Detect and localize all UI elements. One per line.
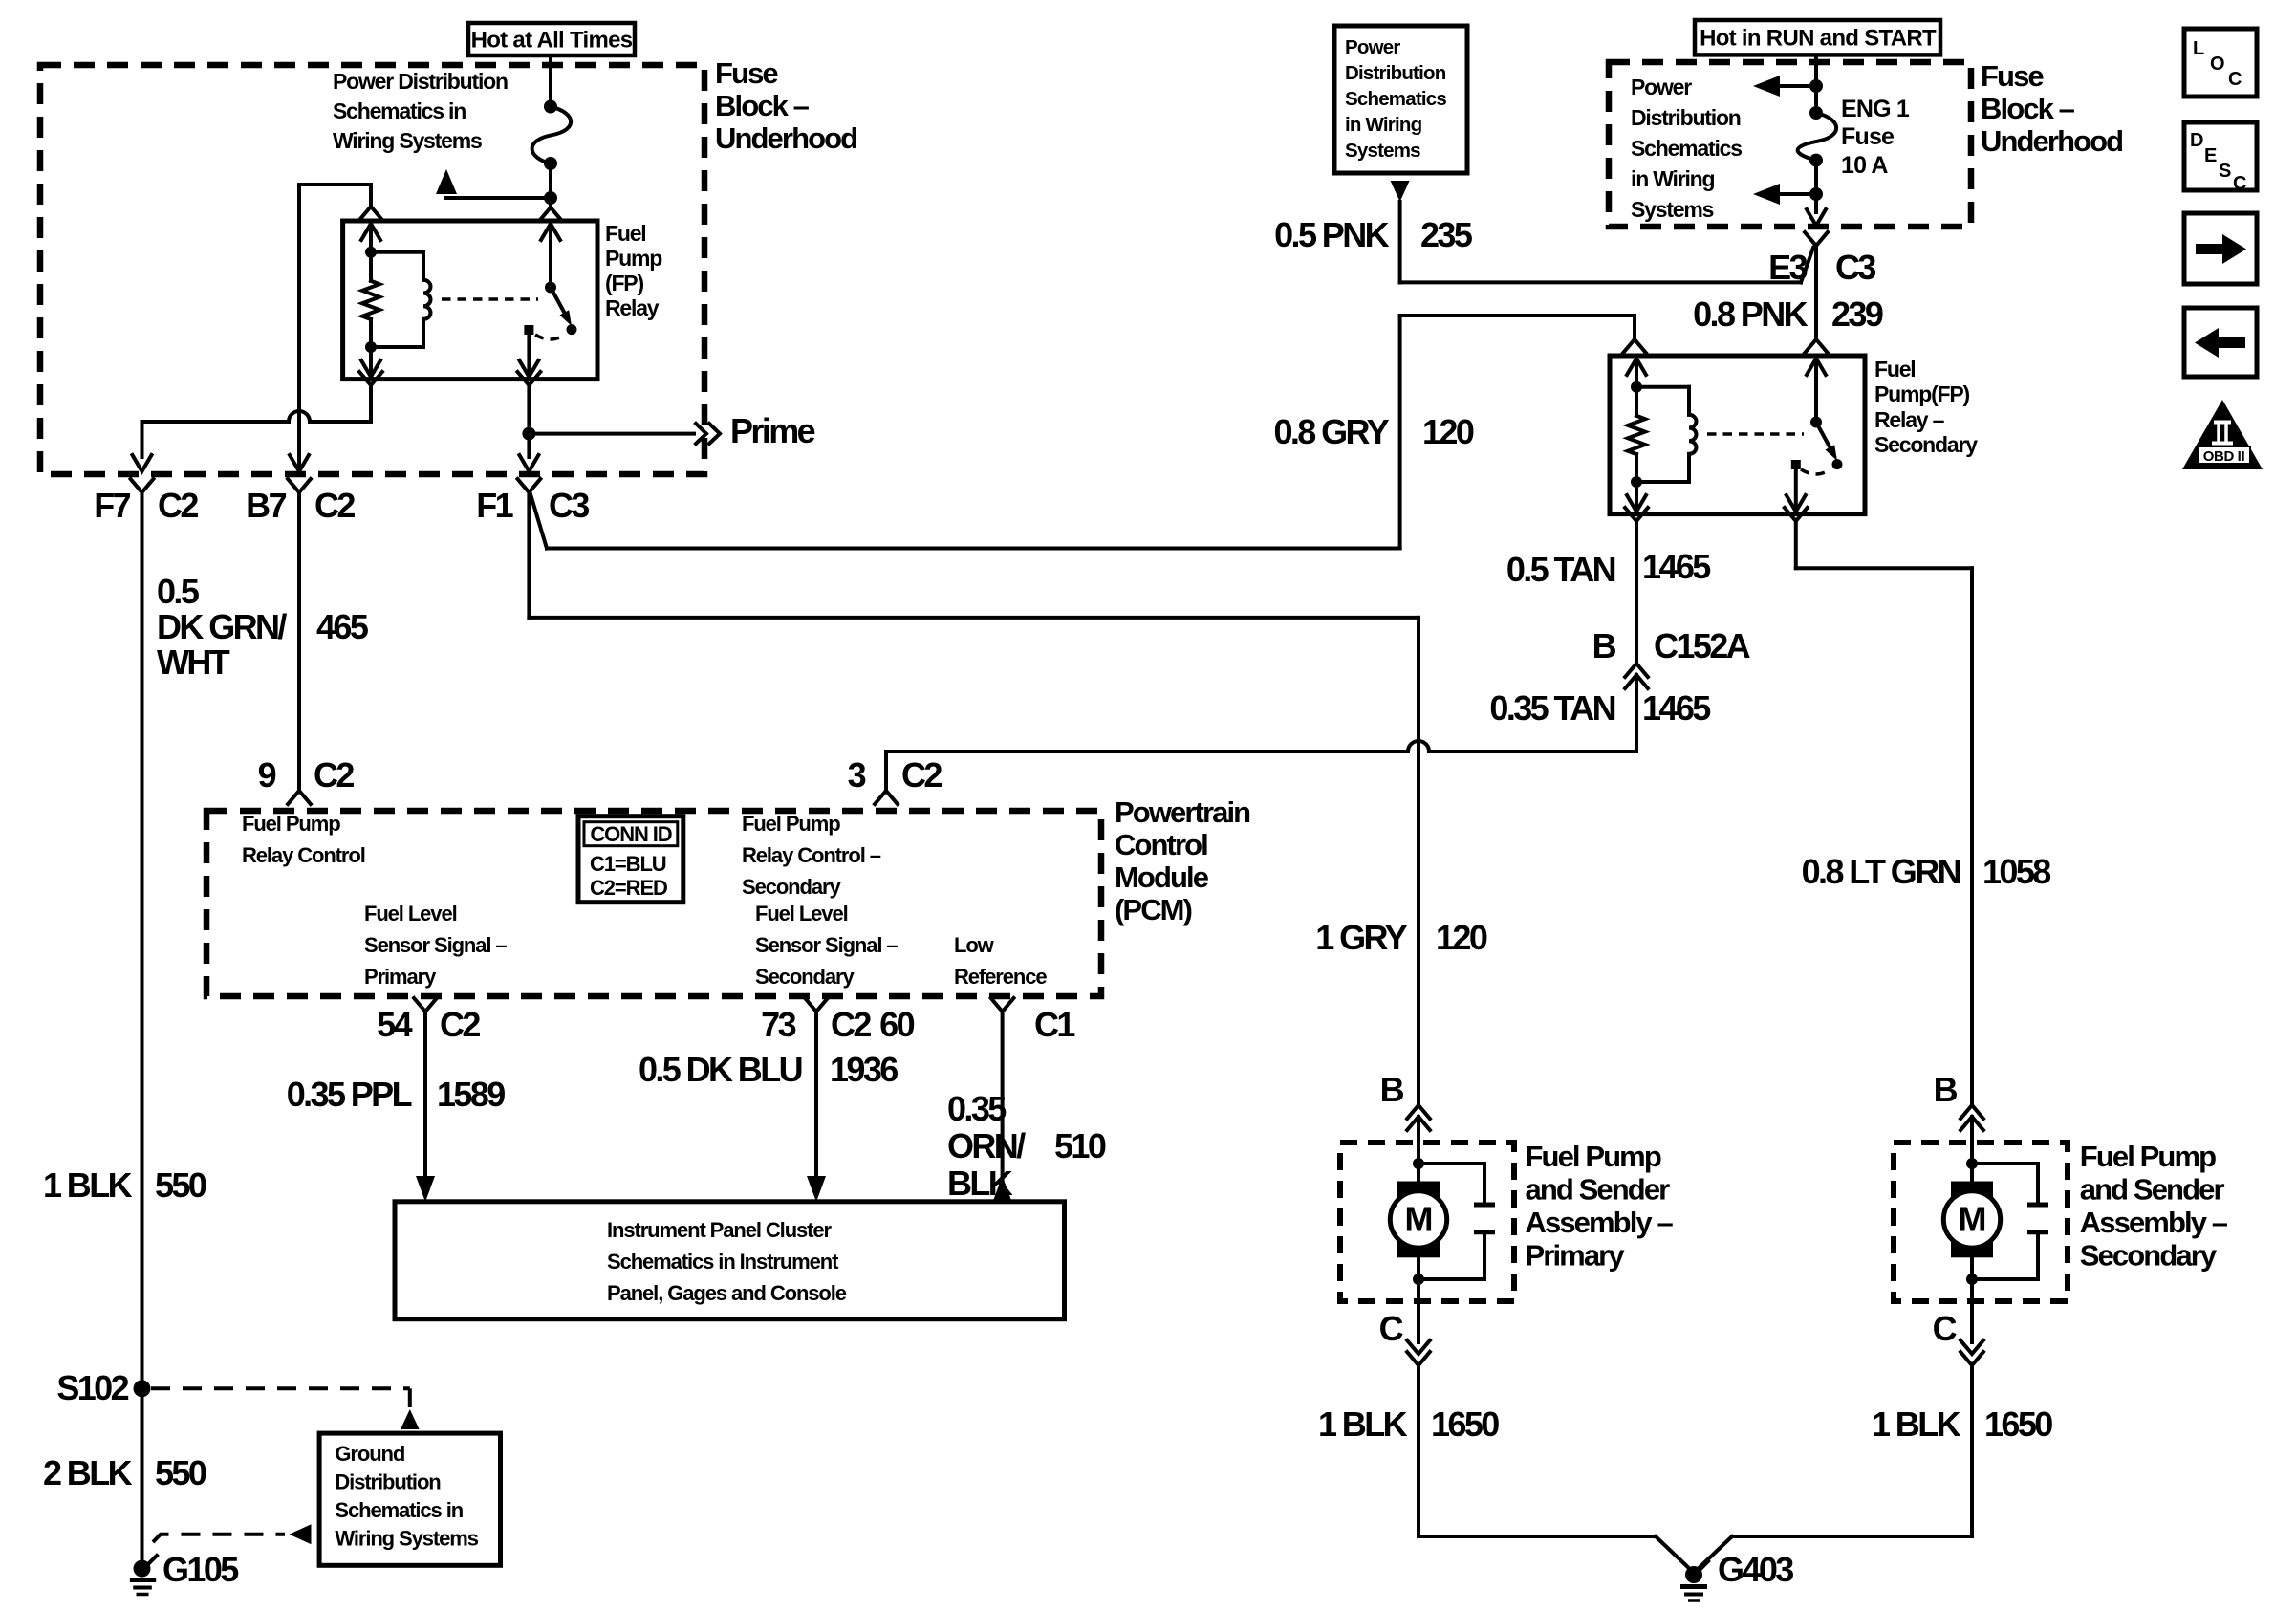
wire 0.5 PNK (1398, 202, 1402, 282)
connector F1/C3 (518, 479, 541, 492)
connector chevron at relay sec pin (coil) (1623, 339, 1646, 353)
fuse block underhood (right) dashed box (1609, 62, 1971, 227)
svg-text:M: M (1405, 1200, 1433, 1239)
svg-text:235: 235 (1420, 215, 1473, 254)
svg-text:WHT: WHT (157, 642, 230, 682)
svg-text:Low: Low (954, 933, 995, 957)
fuel pump secondary dashed box (1894, 1143, 2068, 1301)
wire: Hot at All Times feed (549, 55, 552, 107)
junction (1413, 1158, 1424, 1169)
open arrow at F.B. edge (F1) (519, 455, 538, 471)
svg-text:E: E (2204, 145, 2217, 166)
svg-text:1 BLK: 1 BLK (1872, 1404, 1961, 1444)
svg-text:in Wiring: in Wiring (1345, 114, 1422, 136)
icon: DESC box (2184, 122, 2257, 190)
wire F7 to S102/G105 (141, 492, 144, 1569)
CONN ID legend box (578, 816, 683, 903)
svg-text:Relay Control: Relay Control (242, 843, 365, 867)
wire out of pump primary (1417, 1257, 1420, 1342)
connector PCM pin 60 (991, 998, 1014, 1012)
relay coil+ pin arrow (up) (369, 225, 373, 252)
junction (1631, 381, 1642, 393)
svg-text:ORN/: ORN/ (947, 1126, 1026, 1165)
junction (1809, 79, 1823, 93)
junction (prime branch) (522, 427, 535, 441)
open arrow at F.B. edge (F7) (133, 455, 152, 471)
svg-text:Assembly –: Assembly – (1526, 1206, 1674, 1239)
relay sec common contact (1791, 460, 1801, 469)
wire 1 GRY down to pump (hop at TAN) (529, 616, 1419, 620)
svg-text:550: 550 (155, 1453, 206, 1492)
relay switch input pin arrow (up) (549, 226, 552, 288)
connector C152A (double chevron) (1625, 664, 1648, 677)
arrow to power dist text (lower) (1780, 192, 1816, 196)
svg-text:B: B (1934, 1070, 1958, 1109)
svg-text:1650: 1650 (1984, 1404, 2052, 1444)
svg-text:Assembly –: Assembly – (2080, 1206, 2228, 1239)
ground distribution reference box (319, 1433, 500, 1565)
svg-text:0.5 PNK: 0.5 PNK (1274, 215, 1389, 254)
svg-text:Pump(FP): Pump(FP) (1874, 381, 1970, 406)
svg-text:1 BLK: 1 BLK (43, 1165, 133, 1205)
svg-text:Fuel Pump: Fuel Pump (2080, 1140, 2216, 1173)
svg-text:Fuel Level: Fuel Level (364, 902, 457, 925)
junction (1413, 1274, 1424, 1285)
splice S102 (134, 1380, 151, 1397)
wire 0.8 PNK down to relay (1814, 246, 1818, 339)
svg-text:C3: C3 (1835, 248, 1875, 287)
connector E3/C3 (1805, 232, 1828, 246)
svg-text:C: C (1379, 1309, 1404, 1348)
svg-text:Fuse: Fuse (715, 56, 778, 90)
svg-text:Reference: Reference (954, 965, 1047, 989)
svg-text:C152A: C152A (1654, 626, 1751, 665)
svg-text:and Sender: and Sender (2080, 1173, 2225, 1207)
relay sec switch input pin arrow (up) (1814, 360, 1818, 423)
wire E3 diagonal (1801, 248, 1813, 282)
junction (1966, 1274, 1978, 1285)
wire 0.8 LT GRN jog (1796, 566, 1972, 570)
relay actuation dashed link (442, 297, 538, 301)
connector B (primary, double chevron) (1407, 1105, 1430, 1119)
svg-text:Schematics in Instrument: Schematics in Instrument (607, 1250, 839, 1274)
wire to Prime (529, 432, 694, 436)
dashed reference wire to ground dist box (153, 1535, 285, 1542)
svg-text:C2: C2 (901, 755, 942, 795)
svg-text:73: 73 (761, 1005, 795, 1044)
wire (1814, 161, 1818, 212)
svg-text:1 BLK: 1 BLK (1318, 1404, 1408, 1444)
svg-text:(FP): (FP) (605, 271, 643, 295)
svg-text:0.35 TAN: 0.35 TAN (1489, 688, 1614, 728)
relay sec coil (inductor) (1636, 385, 1689, 389)
svg-text:Relay Control –: Relay Control – (742, 843, 881, 867)
svg-text:Distribution: Distribution (1631, 105, 1741, 130)
svg-text:Fuel: Fuel (605, 221, 645, 246)
solid arrow below power dist box (1391, 181, 1410, 202)
svg-text:Fuel: Fuel (1874, 357, 1915, 381)
svg-text:G105: G105 (162, 1550, 239, 1589)
svg-text:C3: C3 (549, 486, 589, 525)
relay contact dashed arc (535, 335, 565, 339)
svg-text:Fuse: Fuse (1981, 59, 2044, 93)
fuse F (left, symbol) (532, 107, 572, 164)
svg-text:Pump: Pump (605, 246, 662, 271)
svg-text:F1: F1 (476, 486, 513, 525)
svg-text:C: C (1933, 1309, 1958, 1348)
svg-text:C2: C2 (314, 486, 355, 525)
svg-text:ENG 1: ENG 1 (1841, 96, 1910, 122)
svg-text:0.8 PNK: 0.8 PNK (1693, 294, 1808, 334)
wire 0.35 TAN (1635, 675, 1638, 751)
connector chevron below relay sec coil- (1625, 508, 1648, 521)
connector C (secondary, double chevron) (1960, 1340, 1983, 1354)
wire B7 vertical (297, 185, 301, 457)
junction (544, 100, 557, 114)
svg-text:Secondary: Secondary (755, 965, 855, 989)
svg-text:Powertrain: Powertrain (1115, 795, 1250, 829)
svg-text:Schematics in: Schematics in (333, 98, 466, 123)
ground G105 (134, 1560, 151, 1578)
svg-text:1650: 1650 (1431, 1404, 1499, 1444)
svg-text:C2: C2 (314, 755, 354, 795)
connector B7/C2 (288, 479, 311, 492)
junction (544, 157, 557, 170)
svg-text:C: C (2233, 173, 2246, 194)
svg-text:(PCM): (PCM) (1115, 893, 1192, 926)
relay switch pivot (545, 282, 556, 294)
relay sec actuation dashed link (1707, 432, 1804, 436)
connector chevron at relay pin 86 (359, 207, 382, 220)
solid arrow out of cluster (60) (993, 1176, 1012, 1202)
junction (365, 341, 377, 353)
connector C (primary, double chevron) (1407, 1340, 1430, 1354)
solid arrow to Power Distribution text (436, 169, 457, 194)
instrument panel cluster box (395, 1202, 1065, 1319)
icon: LOC box (2184, 29, 2257, 97)
relay common pin arrow (down) (527, 335, 531, 375)
svg-text:Distribution: Distribution (1345, 62, 1446, 84)
wire out of pump secondary (1970, 1257, 1974, 1342)
motor M (primary) (1397, 1182, 1440, 1258)
svg-text:Instrument Panel Cluster: Instrument Panel Cluster (607, 1218, 833, 1242)
svg-text:2 BLK: 2 BLK (43, 1453, 133, 1492)
svg-text:Schematics in: Schematics in (335, 1498, 463, 1522)
svg-text:1936: 1936 (830, 1050, 898, 1089)
svg-text:465: 465 (316, 607, 369, 646)
svg-text:239: 239 (1831, 294, 1883, 334)
svg-text:M: M (1959, 1200, 1986, 1239)
wire (549, 163, 552, 198)
svg-text:Relay: Relay (605, 295, 660, 320)
arrow to power dist text (upper) (1780, 84, 1816, 88)
resistor (relay secondary internal) (1635, 387, 1638, 416)
svg-text:Relay –: Relay – (1874, 407, 1945, 432)
wire into pump secondary (1970, 1117, 1974, 1182)
svg-text:0.8 LT GRN: 0.8 LT GRN (1802, 852, 1960, 891)
double chevron arrow (Prime) (696, 424, 706, 444)
svg-text:OBD II: OBD II (2203, 448, 2245, 465)
svg-text:1465: 1465 (1642, 547, 1711, 586)
svg-text:Hot in RUN and START: Hot in RUN and START (1700, 26, 1937, 52)
svg-text:Fuse: Fuse (1841, 123, 1895, 150)
solid arrow to Ground Distribution box (401, 1409, 420, 1429)
svg-text:1 GRY: 1 GRY (1315, 918, 1407, 957)
icon: OBD II triangle (2182, 400, 2263, 469)
svg-text:Fuel Pump: Fuel Pump (742, 812, 840, 836)
motor M (secondary) (1951, 1182, 1993, 1258)
connector PCM pin 54 (414, 998, 437, 1012)
relay sec switch pivot (1810, 417, 1822, 428)
powertrain control module dashed box (206, 811, 1101, 996)
connector chevron at relay sec pin (sw) (1805, 339, 1828, 353)
svg-text:Distribution: Distribution (335, 1470, 441, 1494)
relay sec switch blade tip (1832, 459, 1843, 469)
svg-text:CONN ID: CONN ID (590, 822, 671, 846)
label box: Hot in RUN and START (1695, 20, 1940, 54)
relay switch blade (551, 288, 564, 314)
resistor (relay primary internal) (369, 252, 373, 281)
relay switch blade tip (567, 324, 577, 335)
svg-text:550: 550 (155, 1165, 206, 1205)
connector F7/C2 (131, 479, 154, 492)
svg-text:and Sender: and Sender (1526, 1173, 1671, 1207)
svg-text:120: 120 (1422, 412, 1474, 451)
svg-text:Schematics: Schematics (1631, 136, 1742, 161)
svg-text:0.5 DK BLU: 0.5 DK BLU (639, 1050, 802, 1089)
connector chevron below relay pin 87 (518, 372, 541, 385)
connector chevron below relay pin 85 (359, 372, 382, 385)
svg-text:Schematics: Schematics (1345, 88, 1446, 110)
wire into pump primary (1417, 1117, 1420, 1182)
fuel pump primary dashed box (1340, 1143, 1514, 1301)
svg-text:in Wiring: in Wiring (1631, 166, 1715, 191)
svg-text:Fuel Pump: Fuel Pump (1526, 1140, 1661, 1173)
svg-text:Module: Module (1115, 860, 1209, 894)
connector chevron below relay sec common (1785, 508, 1808, 521)
wire F1/C3 diagonal (527, 492, 531, 618)
fuse block underhood (left) dashed box (40, 65, 704, 474)
svg-text:Block –: Block – (715, 89, 810, 122)
junction (1966, 1158, 1978, 1169)
svg-text:S102: S102 (56, 1368, 128, 1407)
relay sec switch blade (1816, 423, 1830, 448)
wire to G403 (primary) (1417, 1365, 1420, 1536)
connector chevron PCM pin 3 (875, 791, 898, 804)
junction (365, 247, 377, 258)
svg-text:0.35: 0.35 (947, 1089, 1007, 1128)
svg-text:Underhood: Underhood (715, 121, 856, 155)
wire F1 down (527, 434, 531, 457)
svg-text:9: 9 (258, 755, 276, 795)
wire: coil- to F7 (with hop over B7) (142, 411, 372, 422)
svg-text:Control: Control (1115, 828, 1207, 861)
svg-text:10 A: 10 A (1841, 152, 1888, 179)
junction (1809, 187, 1823, 201)
icon: right arrow box (2184, 213, 2257, 284)
wire B7 to PCM pin 9 (297, 492, 301, 791)
wire to power distribution arrow (446, 196, 551, 200)
svg-text:Wiring Systems: Wiring Systems (335, 1527, 478, 1551)
svg-text:C1=BLU: C1=BLU (590, 852, 666, 876)
svg-text:1465: 1465 (1642, 688, 1711, 728)
wire 0.35 TAN horizontal (hop at 1 GRY) (886, 741, 1636, 751)
svg-text:Wiring Systems: Wiring Systems (333, 128, 482, 153)
svg-text:S: S (2219, 161, 2231, 182)
connector PCM pin 73 (805, 998, 828, 1012)
wire from Hot in RUN (1814, 54, 1818, 113)
svg-text:Systems: Systems (1631, 197, 1714, 222)
open arrow at F.B. edge (E3) (1807, 209, 1826, 226)
svg-text:Power: Power (1631, 75, 1692, 99)
svg-text:Sensor Signal –: Sensor Signal – (755, 933, 898, 957)
svg-text:Prime: Prime (730, 411, 815, 450)
connector chevron PCM pin 9 (288, 791, 311, 804)
relay K (FP Relay Secondary) box (1610, 356, 1865, 514)
svg-text:Underhood: Underhood (1981, 124, 2122, 158)
svg-text:1589: 1589 (437, 1075, 505, 1114)
relay sec contact dashed arc (1801, 469, 1830, 474)
dashed reference wire from S102 (151, 1386, 410, 1390)
svg-text:F7: F7 (94, 486, 130, 525)
svg-text:C2: C2 (440, 1005, 480, 1044)
solid arrow into cluster (54) (416, 1176, 435, 1202)
connector B (secondary, double chevron) (1960, 1105, 1983, 1119)
svg-text:Panel, Gages and Console: Panel, Gages and Console (607, 1281, 847, 1305)
wire to G403 (secondary) (1970, 1365, 1974, 1536)
svg-text:Primary: Primary (364, 965, 437, 989)
svg-text:L: L (2193, 38, 2204, 59)
power distribution reference box (solid) (1334, 26, 1467, 173)
svg-text:D: D (2190, 130, 2203, 151)
svg-text:C2: C2 (158, 486, 198, 525)
connector chevron at relay pin 30 (549, 198, 552, 207)
sender capacitor (secondary) (1972, 1162, 2038, 1165)
junction (1631, 476, 1642, 488)
sender capacitor (primary) (1419, 1162, 1484, 1165)
svg-text:B: B (1592, 626, 1616, 665)
svg-text:Primary: Primary (1526, 1239, 1626, 1273)
relay coil (inductor) (371, 250, 423, 254)
svg-text:3: 3 (848, 755, 866, 795)
svg-text:60: 60 (879, 1005, 914, 1044)
relay common contact (524, 325, 533, 335)
wire 0.8 GRY to secondary relay (547, 547, 1400, 551)
svg-text:1058: 1058 (1982, 852, 2050, 891)
relay coil- pin arrow (down) (369, 347, 373, 375)
svg-text:Sensor Signal –: Sensor Signal – (364, 933, 507, 957)
svg-text:Hot at All Times: Hot at All Times (471, 28, 633, 54)
svg-text:G403: G403 (1718, 1550, 1793, 1589)
svg-text:0.5 TAN: 0.5 TAN (1506, 550, 1615, 589)
svg-text:BLK: BLK (947, 1164, 1013, 1203)
open arrow at F.B. edge (B7) (297, 457, 301, 470)
wire F7 vertical (141, 422, 144, 457)
svg-text:0.8 GRY: 0.8 GRY (1273, 412, 1389, 451)
relay sec coil+ pin arrow (up) (1635, 359, 1638, 387)
icon: left arrow box (2184, 308, 2257, 377)
relay sec coil- pin arrow (down) (1635, 482, 1638, 510)
svg-text:0.5: 0.5 (157, 572, 200, 611)
svg-text:Fuel Level: Fuel Level (755, 902, 848, 925)
svg-text:54: 54 (377, 1005, 412, 1044)
svg-text:Secondary: Secondary (1874, 432, 1978, 457)
svg-text:C2=RED: C2=RED (590, 876, 667, 900)
svg-text:Systems: Systems (1345, 140, 1420, 162)
solid arrow into cluster (73) (807, 1176, 826, 1202)
solid arrow (ground dist) (290, 1524, 312, 1544)
svg-text:C2: C2 (831, 1005, 871, 1044)
svg-text:Fuel Pump: Fuel Pump (242, 812, 340, 836)
svg-text:B7: B7 (246, 486, 286, 525)
svg-text:Ground: Ground (335, 1442, 404, 1466)
junction (544, 191, 557, 205)
relay K (FP Relay) box (343, 221, 597, 380)
svg-text:B: B (1380, 1070, 1404, 1109)
svg-text:Secondary: Secondary (742, 875, 841, 899)
svg-text:Block –: Block – (1981, 92, 2075, 125)
svg-text:120: 120 (1436, 918, 1487, 957)
svg-text:C: C (2228, 69, 2242, 90)
svg-text:DK GRN/: DK GRN/ (157, 607, 287, 646)
svg-text:Secondary: Secondary (2080, 1239, 2218, 1273)
svg-text:Power: Power (1345, 36, 1400, 58)
svg-text:O: O (2210, 54, 2224, 75)
svg-text:Power Distribution: Power Distribution (333, 69, 508, 94)
ground G403 (1685, 1566, 1702, 1583)
svg-text:510: 510 (1054, 1126, 1106, 1165)
relay sec common pin arrow (down) (1794, 469, 1798, 510)
fuse ENG 1 (symbol) (1809, 106, 1823, 120)
svg-text:0.35 PPL: 0.35 PPL (287, 1075, 412, 1114)
wire: B7 to relay coil (299, 183, 371, 186)
svg-text:C1: C1 (1034, 1005, 1075, 1044)
label box: Hot at All Times (468, 23, 635, 55)
